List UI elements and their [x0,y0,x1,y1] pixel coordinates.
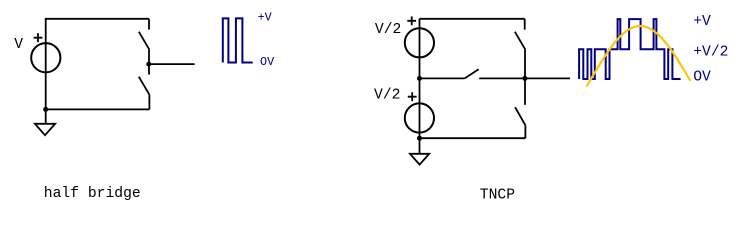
svg-text:OV: OV [260,55,275,69]
voltage source V2b [405,103,434,132]
switch S4 top wire [524,19,526,30]
waveform TNCP output (3-level PWM) [579,19,681,79]
wire middle rail from midpoint node [420,77,465,79]
switch S1 top (wire + contact) [148,19,150,30]
plus sign of V1 [34,33,43,42]
wire top rail right circuit [420,18,525,20]
reference sine overlay [587,26,690,86]
node junction dot bottom left [43,107,48,112]
ground symbol left [35,124,55,135]
node junction dot bottom right circuit [417,136,422,141]
wire top rail left circuit [46,17,149,20]
plus sign of V2b [408,92,417,101]
switch S2 blade [139,77,150,95]
switch S2 top wire [148,64,150,75]
switch S1 blade [139,32,150,50]
svg-text:+V: +V [258,11,273,25]
wire output right circuit [525,77,570,79]
switch S3 blade (middle) [465,69,479,78]
wire left vertical right circuit (through both sources) [419,19,421,138]
svg-text:+V: +V [693,14,711,30]
wire S1 bottom to output node [148,50,150,64]
switch S5 top wire [524,78,526,104]
node output dot left circuit [146,62,151,67]
voltage source V1 [31,43,60,72]
svg-text:+V/2: +V/2 [693,44,728,60]
svg-text:V: V [14,37,23,53]
wire output left circuit [149,63,195,65]
node output dot right circuit [522,76,527,81]
wire left vertical (through source V1) [45,19,47,110]
svg-text:OV: OV [693,69,711,85]
svg-text:half bridge: half bridge [44,186,141,202]
voltage source V2a [405,28,434,57]
wire ground stub right [419,138,421,154]
wire middle rail right part [479,77,525,79]
wire bottom rail left circuit [46,108,150,110]
node junction dot midpoint [417,76,422,81]
switch S5 blade [515,107,525,125]
svg-text:TNCP: TNCP [480,187,515,203]
wire ground stub [45,109,47,123]
wire S4 bottom to node [524,50,526,79]
switch S4 blade [515,32,526,50]
ground symbol right [410,154,429,165]
plus sign of V2a [407,16,416,25]
svg-text:V/2: V/2 [374,88,400,104]
wire bottom rail right circuit [420,137,526,139]
wire S5 bottom [524,125,526,138]
waveform half-bridge output (square wave) [223,18,253,62]
svg-text:V/2: V/2 [375,22,401,38]
wire S2 bottom [148,95,150,110]
